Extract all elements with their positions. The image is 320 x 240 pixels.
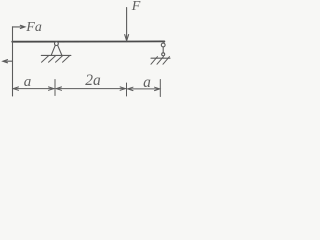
svg-text:2a: 2a — [85, 72, 101, 89]
svg-text:F: F — [131, 0, 141, 14]
svg-text:a: a — [143, 74, 151, 91]
svg-text:a: a — [24, 74, 32, 90]
svg-text:Fa: Fa — [25, 20, 42, 35]
